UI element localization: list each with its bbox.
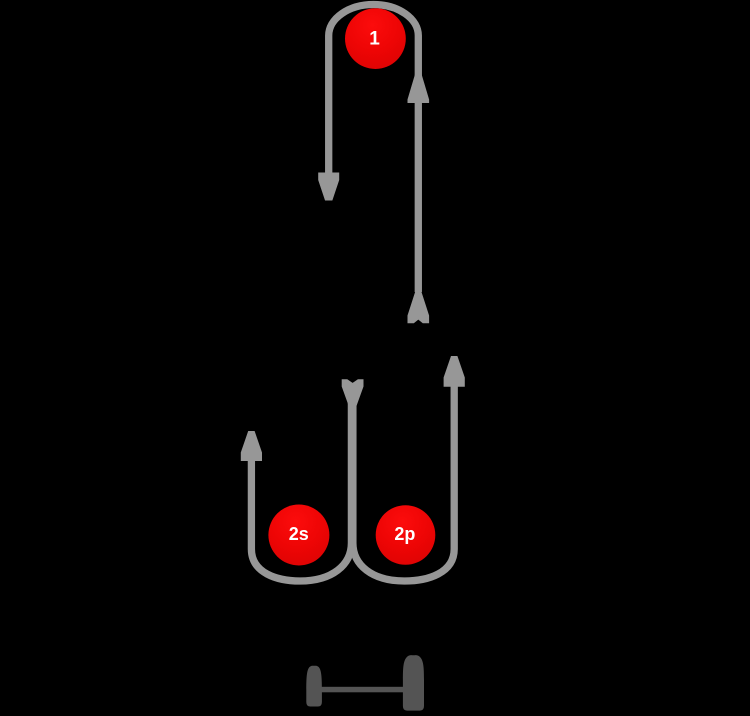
svg-text:1: 1 [369,29,380,50]
svg-text:2p: 2p [394,524,415,544]
svg-text:2s: 2s [289,524,309,544]
